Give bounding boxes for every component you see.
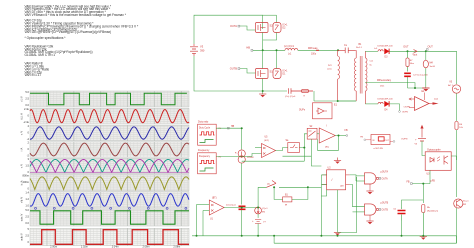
svg-text:(Lr) (C)=1: (Lr) (C)=1 bbox=[284, 45, 295, 48]
wire JPWM to Ct node bbox=[241, 163, 243, 204]
wire secondary top to rectifier rail bbox=[365, 50, 378, 52]
svg-text:2.5: 2.5 bbox=[25, 96, 29, 100]
svg-text:Frequency: Frequency bbox=[199, 155, 211, 158]
wire battery bottom return bbox=[194, 56, 263, 91]
wire tank return bbox=[263, 90, 287, 92]
svg-text:(BT): (BT) bbox=[212, 197, 217, 199]
inductor Ls2 bbox=[378, 102, 383, 104]
svg-text:IC=1: IC=1 bbox=[283, 71, 289, 73]
svg-text:FB: FB bbox=[345, 129, 348, 132]
wire fb loop bbox=[318, 136, 339, 151]
svg-text:v1 /V: v1 /V bbox=[21, 96, 24, 102]
capacitor C4 bbox=[393, 207, 405, 221]
svg-text:OUTA: OUTA bbox=[230, 24, 237, 28]
svg-text:Frequency: Frequency bbox=[198, 149, 210, 152]
svg-text:HB: HB bbox=[246, 45, 250, 49]
svg-text:AC 1: AC 1 bbox=[448, 84, 454, 87]
svg-text:VAR I2E=((IFBSW+(CP*Vswing)/DT: VAR I2E=((IFBSW+(CP*Vswing)/DT)-(1/Fswma… bbox=[25, 30, 112, 34]
ground above U2 bbox=[334, 158, 341, 164]
svg-text:1.0: 1.0 bbox=[25, 204, 29, 208]
pin FB top bbox=[345, 129, 348, 137]
pin OUTA bbox=[230, 24, 240, 28]
wire secondary center tap bbox=[365, 83, 415, 88]
wire S1 source to ground bbox=[262, 79, 264, 95]
trace panel 5: teal and magenta rectified arches bbox=[30, 160, 189, 173]
wire U2 q to gates bbox=[350, 175, 365, 176]
capacitor Cs2 on return bbox=[285, 88, 313, 98]
svg-text:i /A: i /A bbox=[21, 147, 24, 151]
svg-text:QM: QM bbox=[340, 186, 344, 188]
ground above E2 bbox=[422, 88, 429, 91]
waveform panel 4 grid bbox=[30, 142, 189, 157]
capacitor Copto bbox=[402, 184, 424, 209]
waveform panel 6 grid bbox=[30, 175, 189, 191]
body diode D2 bbox=[273, 23, 288, 33]
wire secondary bottom to D4 bbox=[365, 103, 378, 105]
wire right edge to bus bbox=[456, 208, 458, 243]
trace panel 6: olive rectified arches bbox=[30, 177, 189, 190]
svg-text:outb /V: outb /V bbox=[21, 233, 24, 241]
svg-text:V3: V3 bbox=[200, 45, 204, 49]
wire U2 left inputs bbox=[321, 174, 326, 176]
wire D2 bottom bbox=[263, 33, 277, 41]
svg-text:(Rpulldown): (Rpulldown) bbox=[427, 211, 438, 213]
svg-text:D1N4148P-100: D1N4148P-100 bbox=[378, 99, 394, 101]
vertical controller stubs bbox=[303, 148, 305, 162]
wire Lr to probe bbox=[298, 49, 338, 51]
load M4 bbox=[423, 51, 436, 88]
svg-text:(C)=1: (C)=1 bbox=[262, 208, 268, 210]
source V5 bbox=[448, 82, 461, 94]
svg-text:VAR VFBmax=5 * this is the max: VAR VFBmax=5 * this is the maximum feedb… bbox=[25, 13, 127, 17]
wire D2 branch bbox=[276, 15, 278, 22]
switch block S3 bbox=[307, 126, 317, 139]
svg-text:26m: 26m bbox=[380, 86, 384, 88]
wire HB rail bbox=[253, 49, 285, 51]
svg-text:0.0: 0.0 bbox=[25, 103, 29, 107]
trace panel 2: red resonant current sine bbox=[30, 110, 189, 123]
transistor M2 right bbox=[454, 199, 470, 208]
svg-text:-2.4u: -2.4u bbox=[23, 120, 29, 124]
mosfet S2 (top switch) bbox=[256, 23, 274, 33]
ground output bbox=[408, 87, 426, 89]
battery V3 bbox=[190, 44, 205, 56]
svg-text:1.2: 1.2 bbox=[25, 197, 29, 201]
wire FB down to Rb bbox=[422, 184, 424, 203]
trace panel 1: green gate square wave bbox=[30, 93, 187, 105]
capacitor Ct bbox=[226, 203, 246, 236]
svg-text:outa /V: outa /V bbox=[21, 213, 24, 221]
wire V5 to R6 bbox=[456, 93, 458, 121]
svg-text:(E1): (E1) bbox=[325, 147, 329, 149]
probe MPsecondary bbox=[377, 79, 392, 88]
wire U1 out to Ct bbox=[224, 207, 242, 209]
source B1 bbox=[274, 187, 292, 206]
svg-text:JPWM: JPWM bbox=[247, 157, 254, 159]
wire OUTA to S2 gate bbox=[240, 26, 256, 30]
switch S4 bbox=[258, 181, 308, 188]
svg-text:SC=1: SC=1 bbox=[463, 201, 469, 203]
trace panel 4: maroon sine bbox=[30, 143, 189, 156]
inductor Lr bbox=[284, 45, 298, 55]
svg-text:FB: FB bbox=[406, 181, 409, 184]
wire OUT to right edge bbox=[426, 51, 457, 84]
wire Ct node right bbox=[242, 207, 258, 209]
wire U1 inputs bbox=[197, 204, 210, 206]
svg-text:MPsecondary: MPsecondary bbox=[377, 79, 392, 82]
svg-text:µOUTB: µOUTB bbox=[381, 203, 389, 205]
waveform y-axis labels bbox=[25, 90, 29, 107]
wire S2 source to HB rail bbox=[262, 33, 264, 51]
waveform panel 5 grid bbox=[30, 158, 189, 174]
resistor Rb pulldown bbox=[422, 205, 439, 236]
transformer B1 bbox=[354, 44, 374, 104]
svg-text:5.0: 5.0 bbox=[25, 208, 29, 212]
wire opto left down bbox=[429, 170, 431, 183]
svg-text:0.0: 0.0 bbox=[25, 221, 29, 225]
probe Vout bbox=[408, 50, 426, 57]
resistor R7 bbox=[406, 51, 414, 71]
wire primary bottom return bbox=[314, 100, 356, 102]
svg-text:Duty ratio: Duty ratio bbox=[198, 121, 209, 124]
svg-text:100u: 100u bbox=[311, 53, 317, 55]
block Frequency bbox=[198, 149, 222, 174]
wire R6 down right edge bbox=[456, 130, 458, 197]
diode D3 bbox=[378, 46, 394, 59]
mosfet S1 (bottom switch) bbox=[256, 69, 274, 79]
node HB bbox=[246, 45, 252, 51]
svg-text:Lm: Lm bbox=[328, 65, 331, 67]
svg-text:VAR b=1.17: VAR b=1.17 bbox=[25, 73, 42, 77]
svg-text:OUTB: OUTB bbox=[382, 209, 389, 211]
flip-flop U2 bbox=[322, 167, 350, 190]
current source JPWM bbox=[235, 150, 254, 163]
svg-text:* Optocoupler specifications *: * Optocoupler specifications * bbox=[25, 36, 67, 40]
ground below gate B bbox=[366, 215, 373, 224]
svg-text:Vout: Vout bbox=[413, 54, 418, 57]
wire U5 out to Sa bbox=[276, 148, 288, 151]
svg-text:OUPs: OUPs bbox=[299, 110, 306, 112]
inductor Lm bbox=[337, 49, 339, 51]
wire D1 top bbox=[276, 50, 278, 68]
wire D4 to OUTN pin bbox=[389, 104, 399, 111]
svg-text:N=1:1: N=1:1 bbox=[356, 47, 363, 49]
svg-text:(S/2): (S/2) bbox=[264, 140, 269, 142]
wire battery top rail bbox=[194, 15, 263, 44]
svg-text:(Cs) (C)=0: (Cs) (C)=0 bbox=[285, 96, 296, 98]
wire duty pin to HB node bbox=[216, 127, 242, 129]
resistor R on return bbox=[302, 89, 309, 97]
wire C4 net bbox=[402, 200, 424, 207]
svg-text:IC=1: IC=1 bbox=[283, 25, 289, 27]
svg-text:ic /A: ic /A bbox=[21, 180, 24, 185]
source V3 opto bias bbox=[414, 125, 426, 146]
ground at S1 source bbox=[259, 94, 266, 97]
optocoupler U3 bbox=[425, 149, 451, 176]
waveform panel 2 grid bbox=[30, 108, 189, 124]
wire B1 net bbox=[274, 187, 283, 199]
svg-text:HB: HB bbox=[231, 126, 235, 128]
svg-text:/: / bbox=[332, 178, 333, 182]
svg-text:OUPN: OUPN bbox=[404, 107, 411, 109]
svg-text:S2: S2 bbox=[270, 24, 274, 28]
and gate A bbox=[365, 171, 389, 185]
svg-text:MPmeas: MPmeas bbox=[308, 47, 318, 50]
svg-text:OUPN: OUPN bbox=[401, 138, 408, 140]
behavioral source E1 box bbox=[299, 103, 338, 119]
diode D4 bbox=[378, 99, 394, 112]
svg-text:800m: 800m bbox=[23, 174, 30, 178]
node OUT bbox=[403, 46, 409, 49]
svg-text:OUTA: OUTA bbox=[382, 177, 389, 180]
svg-text:OUT: OUT bbox=[385, 140, 390, 142]
waveform panel 7 grid bbox=[30, 192, 189, 208]
waveform panel 9 grid bbox=[30, 228, 189, 246]
node OUT right bbox=[427, 46, 434, 50]
body diode D1 bbox=[273, 69, 288, 79]
wire D3 to OUT bbox=[389, 50, 407, 52]
svg-text:(d): (d) bbox=[267, 183, 270, 185]
waveform panel 3 grid bbox=[30, 125, 189, 141]
ground on bus below Rb bbox=[420, 237, 427, 240]
svg-text:(Lm): (Lm) bbox=[327, 69, 332, 71]
wire U5 plus input bbox=[255, 147, 262, 149]
svg-text:v /V: v /V bbox=[21, 164, 24, 169]
svg-text:5.0: 5.0 bbox=[25, 90, 29, 94]
wire HB to S1 bbox=[262, 50, 264, 68]
svg-text:2.5: 2.5 bbox=[25, 234, 29, 238]
sample hold block OUT-9N bbox=[360, 135, 407, 150]
svg-text:OUTB: OUTB bbox=[230, 67, 237, 71]
pin HB mid bbox=[228, 126, 235, 129]
ground below gate A bbox=[366, 184, 373, 194]
wire V2 to optobox bbox=[422, 141, 425, 156]
resistor R6 bbox=[455, 122, 464, 130]
comparator U5 bbox=[262, 137, 276, 158]
svg-text:i(L) /A: i(L) /A bbox=[21, 113, 24, 120]
trace panel 9: red OUTB square wave bbox=[30, 230, 189, 245]
comparator U1 timing bbox=[209, 197, 224, 220]
svg-text:v /V: v /V bbox=[21, 131, 24, 136]
waveform panel 1 grid bbox=[30, 91, 189, 107]
and gate B bbox=[365, 203, 389, 215]
wire FB net bbox=[413, 183, 431, 185]
svg-text:390: 390 bbox=[200, 49, 205, 53]
wire Sa out bbox=[299, 134, 307, 148]
svg-text:S1: S1 bbox=[270, 70, 274, 74]
pin FB bottom bbox=[406, 181, 412, 185]
trace panel 7: blue output ripple sine bbox=[30, 194, 189, 207]
buffer U1 fb bbox=[319, 126, 335, 149]
svg-text:1.4: 1.4 bbox=[25, 191, 29, 195]
capacitor Cs (series) bbox=[338, 44, 356, 53]
label uFB bbox=[431, 180, 436, 182]
svg-text:OUT: OUT bbox=[403, 46, 409, 49]
svg-text:50m: 50m bbox=[410, 63, 414, 65]
svg-text:D1N4148P-100: D1N4148P-100 bbox=[378, 46, 394, 48]
svg-text:µFB: µFB bbox=[431, 180, 436, 182]
block Duty Cycle bbox=[198, 121, 222, 146]
svg-text:2.5: 2.5 bbox=[25, 214, 29, 218]
directive text block bbox=[25, 4, 140, 77]
wire Lm bottom joins return bbox=[338, 100, 357, 102]
wire opto right to edge bbox=[451, 156, 456, 160]
current probe MPmeas bbox=[308, 47, 319, 56]
wire U2 below to bus bbox=[337, 190, 339, 233]
bottom bus main bbox=[192, 235, 457, 237]
svg-text:µOUTA: µOUTA bbox=[381, 171, 389, 174]
trace panel 8: green OUTA square wave bbox=[30, 211, 189, 224]
bottom bus 2 bbox=[273, 236, 275, 243]
trace panel 3: blue sine bbox=[30, 127, 189, 139]
svg-text:vfb /V: vfb /V bbox=[21, 196, 24, 203]
op-amp E2 bbox=[404, 91, 439, 111]
svg-text:Optocoupler: Optocoupler bbox=[427, 149, 441, 152]
pin OUTB bbox=[230, 67, 240, 71]
wire switch rail to U2 area bbox=[308, 186, 322, 188]
sample block Sa bbox=[286, 140, 300, 153]
svg-text:2.4u: 2.4u bbox=[24, 107, 30, 111]
wire OUTB to S1 gate bbox=[240, 69, 256, 74]
battery V7 bbox=[252, 214, 266, 224]
wire U1 to FB pin bbox=[335, 135, 346, 137]
pin OUTN bbox=[399, 111, 409, 114]
svg-text:Duty Cycle: Duty Cycle bbox=[199, 126, 211, 129]
svg-text:OUT: OUT bbox=[428, 46, 434, 49]
svg-text:OUPN: OUPN bbox=[402, 112, 408, 114]
svg-text:nOUT-9N: nOUT-9N bbox=[374, 148, 384, 150]
wire S3 to U1 bbox=[317, 133, 319, 135]
waveform panel 8 grid bbox=[30, 209, 189, 226]
wire I2 top to switch rail bbox=[257, 187, 259, 207]
inductor Ls1 bbox=[374, 48, 383, 51]
wire freq pin to U5 bbox=[216, 154, 261, 157]
svg-text:(Ct) (C)=0: (Ct) (C)=0 bbox=[226, 203, 237, 206]
current source I2 bbox=[255, 207, 269, 214]
wire node to JPWM bbox=[241, 128, 243, 149]
capacitor C2 (output) bbox=[404, 73, 428, 88]
svg-text:3m10: 3m10 bbox=[430, 66, 436, 68]
svg-text:1.5: 1.5 bbox=[25, 164, 29, 168]
svg-text:GLOBAL VAR CTR=1: GLOBAL VAR CTR=1 bbox=[25, 53, 56, 57]
